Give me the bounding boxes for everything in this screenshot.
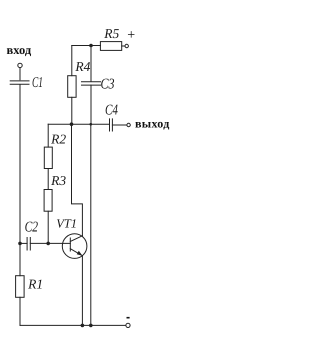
resistor R1	[16, 276, 25, 298]
svg-text:R3: R3	[50, 173, 66, 188]
wire R4 bottom lead	[71, 97, 73, 124]
label C3	[101, 77, 115, 93]
wire collector node horizontal	[48, 123, 109, 125]
label выход	[135, 116, 170, 130]
node input terminal	[18, 63, 22, 67]
resistor R4	[68, 76, 76, 98]
resistor R2	[44, 147, 52, 168]
svg-text:R1: R1	[27, 277, 43, 292]
svg-text:выход: выход	[135, 116, 170, 130]
label C1	[32, 75, 43, 91]
svg-text:C4: C4	[105, 103, 118, 119]
svg-text:R4: R4	[74, 59, 90, 74]
wire C1 bottom down left rail	[19, 85, 21, 244]
label R1	[27, 277, 43, 292]
resistor R3	[44, 190, 52, 212]
label C2	[25, 220, 39, 236]
label C4	[105, 103, 118, 119]
svg-text:C3: C3	[101, 77, 115, 93]
svg-text:+: +	[127, 28, 135, 43]
node junction right-line-ground	[89, 324, 93, 328]
wire R5 right lead	[122, 45, 125, 47]
node plus terminal	[125, 44, 128, 47]
svg-text:R2: R2	[50, 131, 66, 146]
capacitor C1	[10, 81, 29, 84]
wire middle vertical to jog	[72, 124, 83, 236]
wire C2 to base junction	[30, 242, 48, 244]
wire input terminal to C1	[19, 68, 21, 80]
label R5	[103, 26, 119, 41]
capacitor C2	[27, 238, 30, 251]
node junction emitter-ground	[81, 324, 85, 328]
node output terminal	[127, 123, 130, 126]
label minus	[127, 317, 130, 319]
label R3	[50, 173, 66, 188]
svg-text:C2: C2	[25, 220, 39, 236]
svg-text:R5: R5	[103, 26, 119, 41]
label VT1	[56, 217, 77, 231]
wire C3 bottom to collector node	[90, 85, 92, 124]
svg-text:C1: C1	[32, 75, 43, 91]
transistor VT1	[62, 234, 87, 259]
label R2	[50, 131, 66, 146]
wire right vertical to ground rail	[90, 124, 92, 325]
capacitor C3	[82, 82, 101, 85]
node junction C3-bottom	[90, 123, 93, 126]
wire top rail	[72, 45, 101, 47]
label вход	[7, 43, 32, 57]
resistor R5	[100, 42, 121, 51]
wire R3 bottom lead	[47, 211, 49, 243]
svg-text:VT1: VT1	[56, 217, 77, 231]
wire R2 top to collector node wire	[47, 124, 49, 147]
wire C3 top lead	[90, 46, 92, 82]
node junction C3-top	[89, 44, 93, 48]
wire junction to R1	[19, 243, 21, 275]
wire R4 top lead	[71, 46, 73, 76]
wire R1 bottom to ground rail	[19, 297, 21, 325]
node minus terminal	[126, 323, 130, 327]
wire R2 to R3	[47, 169, 49, 190]
label plus	[127, 28, 135, 43]
capacitor C4	[110, 119, 113, 131]
wire C4 to output terminal	[112, 124, 127, 126]
label R4	[74, 59, 90, 74]
wire emitter to ground rail	[81, 256, 83, 326]
wire bottom rail	[20, 324, 126, 326]
node junction R3-bottom base	[46, 242, 50, 246]
wire left junction to C2	[20, 242, 27, 244]
wire base junction to VT1 base	[48, 242, 70, 244]
svg-text:вход: вход	[7, 43, 32, 57]
node junction C2-left	[18, 242, 22, 246]
node junction R4-bottom	[70, 122, 74, 126]
